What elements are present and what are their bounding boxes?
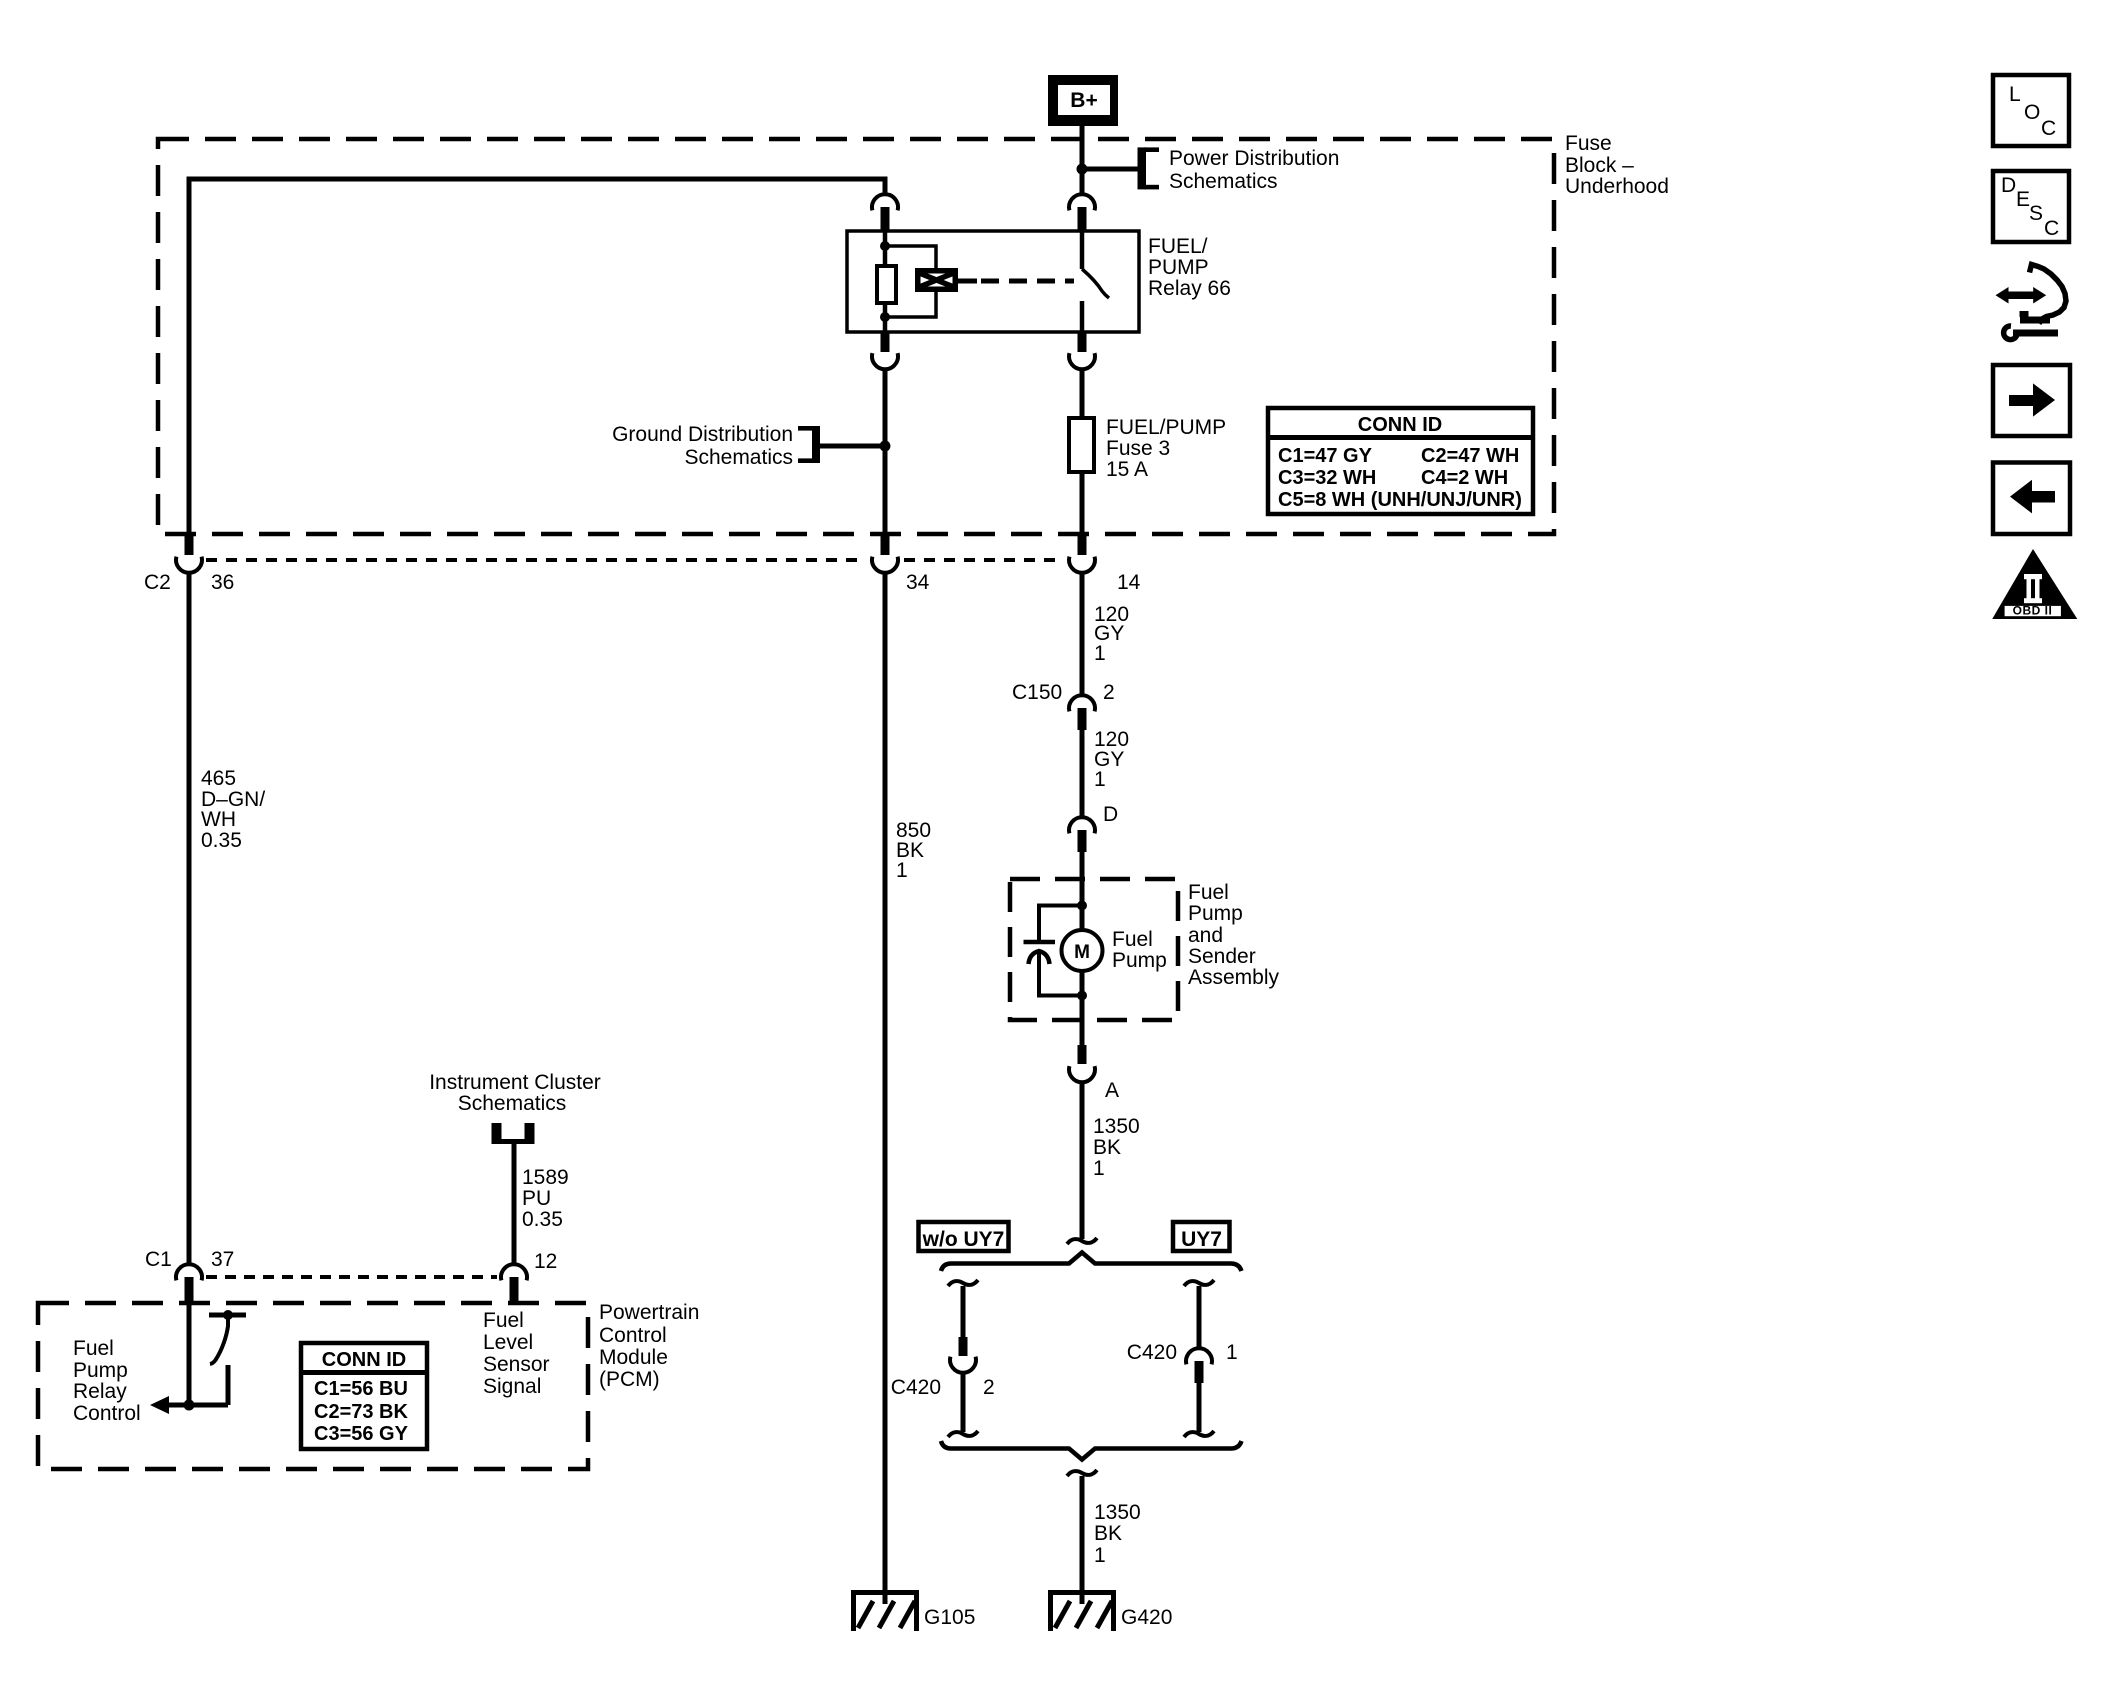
svg-text:12: 12 xyxy=(534,1250,557,1273)
PCM driver switch contact bar xyxy=(209,1313,246,1318)
wire 120 GY to pump xyxy=(1080,730,1085,818)
svg-text:Fuel: Fuel xyxy=(1188,881,1229,904)
PCM dashed box xyxy=(38,1303,588,1469)
relay solenoid actuator symbol xyxy=(915,268,977,292)
svg-text:Signal: Signal xyxy=(483,1375,541,1398)
svg-text:G420: G420 xyxy=(1121,1606,1172,1629)
wire top feed from PCM branch to relay left pin xyxy=(189,179,885,534)
wire coil bottom xyxy=(883,303,888,332)
connector pin 14 xyxy=(1078,534,1087,555)
wire B+ feed down into fuse block xyxy=(1080,120,1085,196)
ground G420 xyxy=(1048,1590,1116,1631)
svg-text:Control: Control xyxy=(73,1402,141,1425)
icon back arrow xyxy=(1993,463,2070,535)
svg-text:PUMP: PUMP xyxy=(1148,256,1209,279)
wire branch to power distribution xyxy=(1082,167,1138,172)
svg-text:Fuel: Fuel xyxy=(483,1309,524,1332)
svg-text:PU: PU xyxy=(522,1187,551,1210)
svg-text:w/o UY7: w/o UY7 xyxy=(922,1228,1005,1251)
svg-text:UY7: UY7 xyxy=(1181,1228,1222,1251)
svg-text:Schematics: Schematics xyxy=(1169,170,1278,193)
svg-text:C2: C2 xyxy=(144,571,171,594)
wire relay switch output xyxy=(1080,301,1085,332)
node coil top junction xyxy=(880,241,890,251)
svg-text:C3=32 WH: C3=32 WH xyxy=(1278,467,1376,489)
relay switch blade xyxy=(1082,269,1109,298)
connector pin D xyxy=(1069,817,1095,833)
svg-text:A: A xyxy=(1105,1079,1119,1102)
arrow fuel pump relay control xyxy=(150,1396,169,1414)
wire fuse output xyxy=(1080,472,1085,534)
svg-text:1: 1 xyxy=(896,859,908,882)
wire break tilde below merge brace xyxy=(1067,1470,1097,1476)
connector C420 pin 2 xyxy=(959,1337,968,1356)
svg-text:Assembly: Assembly xyxy=(1188,966,1280,989)
svg-text:C1=47 GY: C1=47 GY xyxy=(1278,445,1373,467)
option split brace top xyxy=(941,1253,1242,1272)
relay coil resistor element xyxy=(877,266,896,303)
option box w/o UY7 xyxy=(919,1222,1009,1251)
svg-text:Pump: Pump xyxy=(1112,949,1167,972)
connector pin A xyxy=(1078,1045,1087,1064)
svg-text:Power Distribution: Power Distribution xyxy=(1169,147,1339,170)
node ground distribution junction xyxy=(880,441,891,452)
svg-text:Fuse: Fuse xyxy=(1565,132,1612,155)
svg-text:Control: Control xyxy=(599,1324,667,1347)
svg-text:465: 465 xyxy=(201,767,236,790)
connector C1 pin 12 xyxy=(501,1264,527,1280)
sender contact bar xyxy=(1024,940,1056,945)
svg-text:Schematics: Schematics xyxy=(458,1092,567,1115)
svg-text:Sender: Sender xyxy=(1188,945,1256,968)
svg-text:0.35: 0.35 xyxy=(522,1208,563,1231)
svg-text:C3=56 GY: C3=56 GY xyxy=(314,1423,409,1445)
connector pin into relay cavity (coil side) xyxy=(872,194,898,210)
svg-text:D: D xyxy=(1103,803,1118,826)
wire 1350 BK from pump xyxy=(1080,1083,1085,1240)
motor M fuel pump xyxy=(1062,930,1103,971)
wire from relay coil pin to PCM control branch xyxy=(883,370,888,535)
wire from relay switch pin to fuse xyxy=(1080,370,1085,419)
connector C2 pin 36 xyxy=(185,534,194,555)
wire switch output to control node xyxy=(226,1365,231,1405)
svg-text:34: 34 xyxy=(906,571,930,594)
wire 850 BK ground run xyxy=(883,571,888,1604)
svg-text:14: 14 xyxy=(1117,571,1141,594)
node pump bottom junction xyxy=(1077,991,1087,1001)
icon LOC xyxy=(1993,75,2069,146)
fuse FUEL/PUMP Fuse 3 15A xyxy=(1069,418,1094,472)
PCM driver switch blade xyxy=(226,1315,230,1327)
svg-text:Relay: Relay xyxy=(73,1380,127,1403)
svg-text:Sensor: Sensor xyxy=(483,1353,550,1376)
svg-text:C: C xyxy=(2041,117,2056,140)
svg-text:1589: 1589 xyxy=(522,1166,569,1189)
svg-text:FUEL/PUMP: FUEL/PUMP xyxy=(1106,416,1226,439)
wire into pump assembly xyxy=(1080,852,1085,930)
wire PCM relay control input xyxy=(187,1302,192,1405)
wire 1350 BK to ground xyxy=(1080,1476,1085,1604)
svg-text:1350: 1350 xyxy=(1093,1115,1140,1138)
svg-text:0.35: 0.35 xyxy=(201,829,242,852)
svg-text:Fuel: Fuel xyxy=(1112,928,1153,951)
CONN ID table (fuse block) xyxy=(1268,408,1533,514)
node coil bottom junction xyxy=(880,312,890,322)
svg-text:Fuse 3: Fuse 3 xyxy=(1106,437,1170,460)
dashed actuation link to switch xyxy=(981,279,1074,284)
icon forward arrow xyxy=(1993,365,2070,436)
svg-text:1350: 1350 xyxy=(1094,1501,1141,1524)
svg-text:and: and xyxy=(1188,924,1223,947)
battery terminal B+ xyxy=(1048,75,1118,126)
svg-text:Level: Level xyxy=(483,1331,533,1354)
wire branch UY7 xyxy=(1184,1280,1214,1286)
svg-text:Fuel: Fuel xyxy=(73,1337,114,1360)
connector C420 pin 1 xyxy=(1186,1348,1212,1364)
svg-text:1: 1 xyxy=(1094,642,1106,665)
icon DESC xyxy=(1993,171,2069,242)
wire coil bypass loop xyxy=(885,246,936,317)
svg-text:B+: B+ xyxy=(1070,89,1097,112)
svg-text:C150: C150 xyxy=(1012,681,1062,704)
connector C150 pin 2 xyxy=(1069,695,1095,711)
ground G105 xyxy=(851,1590,919,1631)
svg-text:Powertrain: Powertrain xyxy=(599,1301,699,1324)
icon OBD II xyxy=(1992,549,2077,619)
wire sender loop xyxy=(1039,906,1082,996)
svg-text:1: 1 xyxy=(1094,1544,1106,1567)
svg-text:1: 1 xyxy=(1226,1341,1238,1364)
fuse block underhood dashed box xyxy=(158,139,1554,534)
connector pin 34 xyxy=(881,534,890,555)
wire ground distribution branch xyxy=(816,444,885,449)
svg-text:C4=2 WH: C4=2 WH xyxy=(1421,467,1508,489)
icon shift/diagnostic wrench xyxy=(1996,265,2067,340)
svg-text:O: O xyxy=(2024,101,2040,124)
svg-text:Underhood: Underhood xyxy=(1565,175,1669,198)
svg-text:2: 2 xyxy=(983,1376,995,1399)
wire below C420 pin 1 xyxy=(1197,1383,1202,1432)
option box UY7 xyxy=(1173,1222,1230,1251)
bracket ground distribution reference xyxy=(812,426,820,463)
svg-text:Relay 66: Relay 66 xyxy=(1148,277,1231,300)
dotted connector interface line C2 xyxy=(206,558,866,562)
svg-text:C420: C420 xyxy=(891,1376,941,1399)
node junction on B+ feed xyxy=(1077,164,1088,175)
svg-text:S: S xyxy=(2029,202,2043,225)
dotted connector interface line C1 xyxy=(206,1275,497,1279)
svg-text:(PCM): (PCM) xyxy=(599,1368,660,1391)
svg-text:E: E xyxy=(2016,188,2030,211)
svg-text:15 A: 15 A xyxy=(1106,458,1148,481)
connector C1 pin 37 xyxy=(176,1264,202,1280)
CONN ID table (PCM) xyxy=(301,1343,427,1449)
wire break tilde above option brace xyxy=(1067,1238,1097,1244)
option merge brace bottom xyxy=(941,1441,1242,1460)
svg-text:2: 2 xyxy=(1103,681,1115,704)
wire 465 D-GN/WH to PCM xyxy=(187,571,192,1265)
svg-text:Ground Distribution: Ground Distribution xyxy=(612,423,793,446)
svg-text:WH: WH xyxy=(201,808,236,831)
sender wiper arrow head xyxy=(1029,951,1050,964)
svg-text:Schematics: Schematics xyxy=(684,446,793,469)
svg-text:Pump: Pump xyxy=(73,1359,128,1382)
svg-text:BK: BK xyxy=(1093,1136,1121,1159)
svg-text:M: M xyxy=(1074,942,1090,963)
svg-text:FUEL/: FUEL/ xyxy=(1148,235,1208,258)
svg-text:37: 37 xyxy=(211,1248,234,1271)
svg-text:Block –: Block – xyxy=(1565,154,1634,177)
svg-text:L: L xyxy=(2009,83,2021,106)
svg-text:D: D xyxy=(2001,174,2016,197)
svg-text:C1=56 BU: C1=56 BU xyxy=(314,1378,408,1400)
relay coil side output pin xyxy=(881,332,890,352)
wire branch w/o UY7 xyxy=(948,1280,978,1286)
wire below C420 pin 2 xyxy=(961,1373,966,1432)
svg-text:1: 1 xyxy=(1094,768,1106,791)
wire relay coil feed xyxy=(883,231,888,266)
svg-text:C: C xyxy=(2044,217,2059,240)
fuel pump and sender assembly dashed box xyxy=(1010,879,1178,1020)
svg-text:C420: C420 xyxy=(1127,1341,1177,1364)
svg-text:G105: G105 xyxy=(924,1606,975,1629)
svg-text:C5=8 WH (UNH/UNJ/UNR): C5=8 WH (UNH/UNJ/UNR) xyxy=(1278,489,1522,511)
svg-text:C1: C1 xyxy=(145,1248,172,1271)
node pump top junction xyxy=(1077,901,1087,911)
svg-text:Pump: Pump xyxy=(1188,902,1243,925)
svg-text:1: 1 xyxy=(1093,1157,1105,1180)
wire 120 GY fuse output run xyxy=(1080,571,1085,696)
svg-text:C2=47 WH: C2=47 WH xyxy=(1421,445,1519,467)
wire pump bottom xyxy=(1080,971,1085,1045)
connector pin into relay cavity (B+ side) xyxy=(1069,194,1095,210)
relay FUEL/PUMP Relay 66 box xyxy=(847,231,1139,332)
relay switch side output pin xyxy=(1078,332,1087,352)
svg-text:BK: BK xyxy=(1094,1522,1122,1545)
bracket power distribution reference xyxy=(1138,147,1147,189)
svg-text:C2=73 BK: C2=73 BK xyxy=(314,1401,408,1423)
svg-text:CONN ID: CONN ID xyxy=(1358,414,1442,436)
wire 1589 PU xyxy=(512,1144,517,1265)
svg-text:Module: Module xyxy=(599,1346,668,1369)
svg-text:OBD II: OBD II xyxy=(2013,604,2053,618)
wire relay switch feed xyxy=(1080,231,1085,269)
svg-text:36: 36 xyxy=(211,571,234,594)
node control junction xyxy=(184,1400,195,1411)
svg-text:Instrument Cluster: Instrument Cluster xyxy=(429,1071,601,1094)
svg-text:CONN ID: CONN ID xyxy=(322,1349,406,1371)
